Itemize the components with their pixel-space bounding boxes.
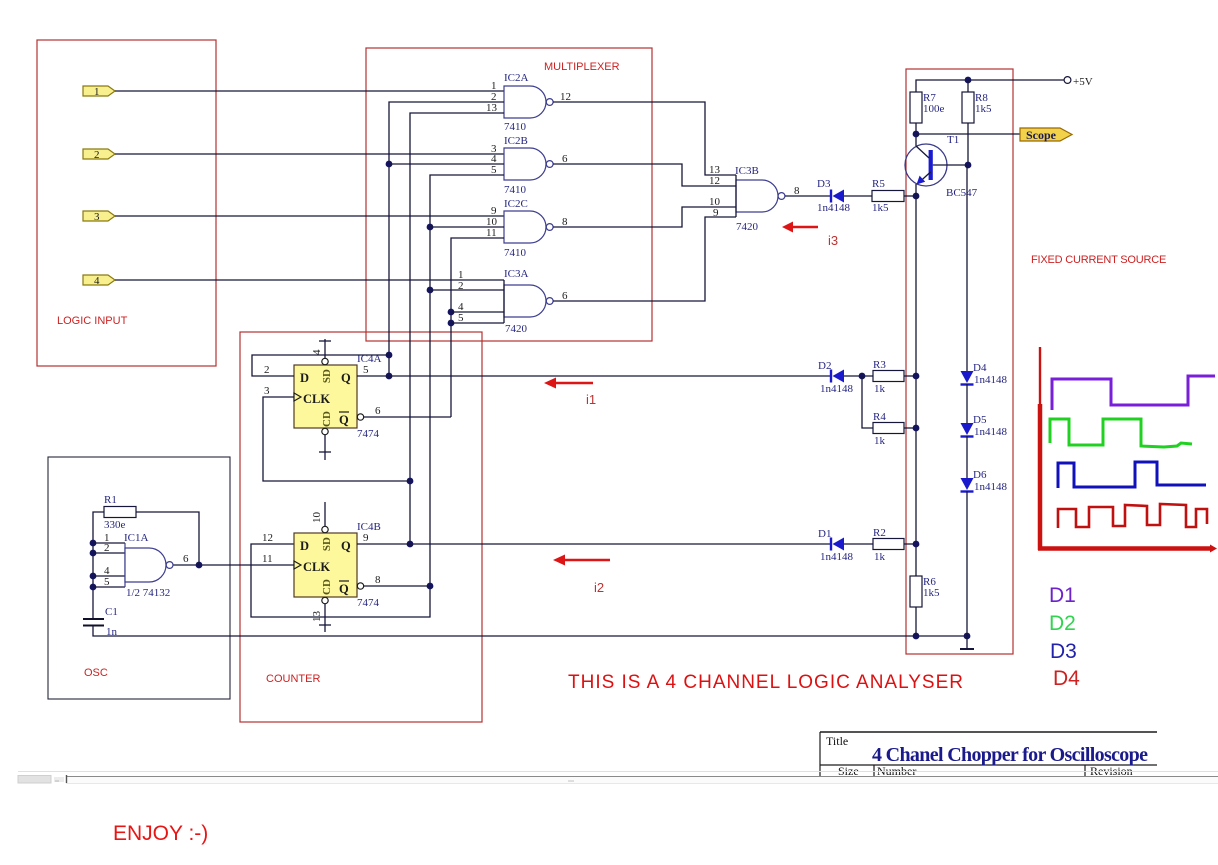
wire emitter line down (below R6) (915, 607, 917, 636)
resistor R4 1k (873, 411, 904, 447)
svg-text:R2: R2 (873, 527, 886, 539)
svg-text:12: 12 (709, 175, 720, 187)
wire R7 bottom lead / collector (915, 123, 917, 146)
wire R1 right lead to oscillator output node (136, 512, 199, 565)
svg-text:1n4148: 1n4148 (974, 426, 1008, 438)
label COUNTER (266, 673, 320, 685)
svg-text:1k5: 1k5 (975, 103, 992, 115)
svg-text:THIS IS A 4 CHANNEL LOGIC ANAL: THIS IS A 4 CHANNEL LOGIC ANALYSER (568, 672, 963, 693)
svg-text:6: 6 (375, 405, 381, 417)
resistor R3 1k (873, 359, 904, 395)
window border line (18, 771, 1218, 773)
junction dot at (451,312) (448, 309, 455, 316)
svg-text:9: 9 (713, 207, 719, 219)
wire IC2B pin 5 select line C (vertical x=430) (251, 175, 504, 617)
pin 1 stub of IC4A CD (tied) (319, 435, 331, 460)
wire R3 to emitter line (904, 375, 916, 377)
svg-text:5: 5 (104, 576, 110, 588)
svg-text:Title: Title (826, 734, 848, 748)
resistor R2 1k (873, 527, 904, 563)
ground stub (960, 636, 974, 649)
legend D4 (1053, 667, 1080, 690)
wire base to bias chain (933, 164, 967, 166)
wire IC3A output 6 to IC3B pin 9 (553, 217, 736, 301)
svg-text:1k: 1k (874, 435, 886, 447)
svg-text:2: 2 (94, 149, 100, 161)
junction dot at (93,576) (90, 573, 97, 580)
svg-text:4: 4 (311, 349, 323, 355)
pin 10 stub of IC4B SD (311, 502, 325, 526)
label i1 (586, 392, 596, 407)
legend D1 (1049, 584, 1076, 607)
svg-text:C1: C1 (105, 606, 118, 618)
wire IC3A pin 5 from junction (451, 322, 504, 324)
diode D6 1n4148 (961, 469, 1008, 493)
waveform trace D2 (green) (1050, 419, 1192, 447)
svg-text:3: 3 (94, 211, 100, 223)
svg-text:D1: D1 (818, 528, 831, 540)
frame FIXED CURRENT SOURCE box (906, 69, 1013, 654)
svg-text:Q: Q (339, 413, 349, 427)
svg-text:1k5: 1k5 (872, 202, 889, 214)
junction dot at (451,323) (448, 320, 455, 327)
svg-text:IC1A: IC1A (124, 532, 149, 544)
svg-text:R4: R4 (873, 411, 886, 423)
svg-text:MULTIPLEXER: MULTIPLEXER (544, 61, 620, 73)
svg-text:13: 13 (486, 102, 498, 114)
legend D3 (1050, 640, 1077, 663)
diode D5 1n4148 (961, 414, 1008, 438)
svg-text:7474: 7474 (357, 428, 380, 440)
svg-text:Q: Q (339, 582, 349, 596)
diode D3 1n4148 (817, 178, 851, 214)
svg-text:11: 11 (486, 227, 497, 239)
wire bias chain bottom segment (966, 491, 968, 636)
label LOGIC INPUT (57, 315, 128, 327)
wire IC2B pin 4 from junction (389, 163, 504, 165)
label i2 (594, 580, 604, 595)
wire emitter line down (upper part) (915, 184, 917, 576)
frame OSC box (48, 457, 230, 699)
wire R5 to emitter node (904, 195, 916, 197)
title block label Size (838, 764, 859, 778)
wire R2 to emitter line (904, 543, 916, 545)
resistor R7 100e (910, 92, 945, 123)
junction dot at (430,227) (427, 224, 434, 231)
svg-text:R3: R3 (873, 359, 886, 371)
wire IC2A pin 13 select line B (vertical x=410) (410, 113, 504, 544)
waveform trace D1 (purple) (1052, 376, 1215, 410)
waveform trace D3 (blue) (1058, 462, 1206, 488)
svg-text:R1: R1 (104, 494, 117, 506)
wire IC2C pin 10 from junction (430, 226, 504, 228)
svg-text:D5: D5 (973, 414, 987, 426)
caption ENJOY :-) (113, 822, 208, 845)
svg-text:1n4148: 1n4148 (817, 202, 851, 214)
svg-text:D1: D1 (1049, 584, 1076, 607)
svg-text:10: 10 (311, 512, 323, 524)
wire IC3A pin 4 from junction (451, 311, 504, 313)
wire IC1A pin 1 (93, 542, 125, 544)
wire IC2A pin 2 select line A (vertical x=389) (389, 102, 504, 376)
svg-text:12: 12 (262, 532, 273, 544)
wire IC2B output 6 to IC3B pin 12 (553, 164, 736, 186)
svg-text:D: D (300, 539, 309, 553)
wire D2 to R3/R4 node (844, 375, 873, 377)
wire C1 to ground bus (93, 626, 967, 637)
junction dot at (916,134) (913, 131, 920, 138)
wire bias chain segment D4-D5 (966, 384, 968, 423)
svg-text:SD: SD (321, 537, 333, 551)
label i3 (828, 233, 838, 248)
svg-text:8: 8 (562, 216, 568, 228)
title block frame (820, 732, 1157, 779)
svg-text:IC2B: IC2B (504, 135, 528, 147)
junction dot at (968,165) (965, 162, 972, 169)
nand gate IC1A (1/2 74132) (104, 532, 189, 599)
title block label Title (826, 734, 848, 748)
svg-text:i1: i1 (586, 392, 596, 407)
wire IC3B output 8 to D3 (785, 195, 831, 197)
svg-text:4 Chanel Chopper for Oscillosc: 4 Chanel Chopper for Oscilloscope (872, 744, 1148, 766)
svg-text:5: 5 (363, 364, 369, 376)
current arrow i1 (544, 378, 593, 389)
svg-text:8: 8 (375, 574, 381, 586)
svg-text:7410: 7410 (504, 121, 527, 133)
connector Scope (1020, 128, 1072, 142)
wire input 3 to IC2C pin 9 (115, 215, 504, 217)
svg-text:Scope: Scope (1026, 128, 1057, 142)
junction dot at (93,553) (90, 550, 97, 557)
svg-text:1k: 1k (874, 383, 886, 395)
svg-text:9: 9 (363, 532, 369, 544)
wire IC4A CLK pin 3 from IC4B Q (263, 385, 410, 481)
current arrow i3 (782, 222, 818, 233)
svg-text:IC2A: IC2A (504, 72, 529, 84)
svg-text:1n4148: 1n4148 (974, 481, 1008, 493)
svg-text:FIXED CURRENT SOURCE: FIXED CURRENT SOURCE (1031, 254, 1166, 266)
wire IC2C pin 11 select line D (vertical x=451) (451, 238, 504, 417)
nand gate IC3A (7420) (458, 268, 568, 335)
label MULTIPLEXER (544, 61, 620, 73)
svg-text:CD: CD (321, 579, 333, 595)
svg-text:1k5: 1k5 (923, 587, 940, 599)
pin 4 stub of IC4A SD (tied high) (311, 339, 331, 358)
junction dot at (967,636) (964, 633, 971, 640)
wire R1 left lead down to IC1A inputs and C1 (93, 512, 104, 619)
wire input 4 to IC3A pin 1 (115, 279, 504, 281)
title block label Number (877, 764, 916, 778)
svg-text:5: 5 (491, 164, 497, 176)
caption THIS IS A 4 CHANNEL LOGIC ANALYSER (568, 672, 963, 693)
nand gate IC3B (7420) (709, 164, 800, 233)
svg-text:D6: D6 (973, 469, 987, 481)
svg-text:D: D (300, 371, 309, 385)
wire collector node to Scope connector (916, 133, 1020, 135)
svg-text:12: 12 (560, 91, 571, 103)
junction dot at (93,587) (90, 584, 97, 591)
svg-text:11: 11 (262, 553, 273, 565)
junction dot at (862,376) (859, 373, 866, 380)
wire IC1A output to IC4B CLK pin 11 (173, 553, 294, 565)
wire D1 to R2 (844, 543, 873, 545)
flip-flop IC4A (7474) (294, 353, 382, 440)
current arrow i2 (553, 555, 610, 566)
nand gate IC2B (7410) (491, 135, 568, 196)
flip-flop IC4B (7474) (294, 521, 381, 609)
svg-text:OSC: OSC (84, 667, 108, 679)
svg-text:2: 2 (264, 364, 270, 376)
wire IC4A D pin 2 feedback loop (252, 355, 389, 376)
wire IC4A Q pin 5 to diode D2 (357, 364, 831, 376)
frame COUNTER box (240, 332, 482, 722)
junction dot at (968,80) (965, 77, 972, 84)
svg-text:7410: 7410 (504, 184, 527, 196)
label FIXED CURRENT SOURCE (1031, 254, 1166, 266)
wire IC3A pin 2 from junction (430, 289, 504, 291)
connector input 4 (83, 275, 115, 287)
svg-text:ENJOY :-): ENJOY :-) (113, 822, 208, 845)
svg-text:D4: D4 (1053, 667, 1080, 690)
wire node down to R4 (862, 376, 873, 428)
pin 12 label IC4B D (262, 532, 273, 544)
diode D4 1n4148 (961, 362, 1008, 386)
junction dot at (410,481) (407, 478, 414, 485)
svg-text:3: 3 (264, 385, 270, 397)
transistor T1 BC547 (905, 134, 978, 199)
svg-text:6: 6 (562, 153, 568, 165)
svg-text:IC2C: IC2C (504, 198, 528, 210)
svg-text:Q: Q (341, 539, 351, 553)
wire bias chain top segment (966, 165, 968, 371)
nand gate IC2C (7410) (486, 198, 568, 259)
svg-text:CLK: CLK (303, 560, 330, 574)
title block label Revision (1090, 764, 1133, 778)
wire input 2 to IC2B pin 3 (115, 153, 504, 155)
waveform axis (red) (1038, 347, 1217, 553)
wire R4 to emitter line (904, 427, 916, 429)
junction dot at (916,196) (913, 193, 920, 200)
svg-text:T1: T1 (947, 134, 959, 146)
connector input 1 (83, 86, 115, 98)
svg-text:D2: D2 (818, 360, 831, 372)
svg-text:R5: R5 (872, 178, 885, 190)
svg-text:i2: i2 (594, 580, 604, 595)
svg-text:330e: 330e (104, 519, 126, 531)
svg-text:...: ... (568, 775, 574, 784)
junction dot at (389,355) (386, 352, 393, 359)
wire IC2C output 8 to IC3B pin 10 (553, 207, 736, 227)
junction dot at (389,376) (386, 373, 393, 380)
resistor R8 1k5 (962, 80, 992, 123)
svg-text:IC4B: IC4B (357, 521, 381, 533)
svg-text:1/2 74132: 1/2 74132 (126, 587, 170, 599)
svg-text:D3: D3 (1050, 640, 1077, 663)
frame LOGIC INPUT box (37, 40, 216, 366)
pin 13 stub of IC4B CD (311, 604, 331, 632)
svg-text:D2: D2 (1049, 612, 1076, 635)
capacitor C1 1n (83, 606, 118, 638)
waveform trace D4 (dark red) (1058, 504, 1207, 528)
wire +5V rail (916, 80, 1064, 92)
svg-text:5: 5 (458, 312, 464, 324)
junction dot at (410,544) (407, 541, 414, 548)
title text 4 Chanel Chopper for Oscilloscope (872, 744, 1148, 766)
legend D2 (1049, 612, 1076, 635)
svg-text:IC3B: IC3B (735, 165, 759, 177)
svg-text:7474: 7474 (357, 597, 380, 609)
svg-text:1n4148: 1n4148 (974, 374, 1008, 386)
svg-text:IC3A: IC3A (504, 268, 529, 280)
wire IC2A output 12 to IC3B pin 13 (553, 102, 736, 175)
svg-text:13: 13 (311, 611, 323, 623)
power port +5V (1064, 76, 1093, 88)
junction dot at (916,376) (913, 373, 920, 380)
svg-text:SD: SD (321, 369, 333, 383)
svg-text:100e: 100e (923, 103, 945, 115)
connector input 3 (83, 211, 115, 223)
junction dot at (916,636) (913, 633, 920, 640)
junction dot at (430,586) (427, 583, 434, 590)
wire IC4B Qbar pin 8 to D loop (364, 574, 430, 586)
wire IC1A pin 5 (93, 586, 125, 588)
wire IC1A pin 4 (93, 575, 125, 577)
connector input 2 (83, 149, 115, 161)
wire D3 to R5 (844, 195, 872, 197)
wire IC1A pin 2 (93, 552, 125, 554)
diode D2 1n4148 (818, 360, 854, 395)
wire input 1 to IC2A pin 1 (115, 90, 504, 92)
svg-text:6: 6 (562, 290, 568, 302)
svg-text:7420: 7420 (736, 221, 759, 233)
horizontal scrollbar track (66, 776, 1218, 784)
resistor R6 1k5 (910, 576, 940, 607)
svg-text:CLK: CLK (303, 392, 330, 406)
junction dot at (199,565) (196, 562, 203, 569)
svg-text:COUNTER: COUNTER (266, 673, 320, 685)
svg-text:6: 6 (183, 553, 189, 565)
svg-text:CD: CD (321, 411, 333, 427)
junction dot at (389,164) (386, 161, 393, 168)
wire IC4A Qbar pin 6 to select line D (364, 405, 451, 417)
resistor R1 330e (104, 494, 136, 531)
wire R8 bottom lead to base node (967, 123, 969, 165)
horizontal scrollbar thumb (18, 775, 574, 784)
svg-text:1k: 1k (874, 551, 886, 563)
svg-text:D3: D3 (817, 178, 831, 190)
svg-text:D4: D4 (973, 362, 987, 374)
junction dot at (916,428) (913, 425, 920, 432)
svg-text:8: 8 (794, 185, 800, 197)
junction dot at (430,290) (427, 287, 434, 294)
label OSC (84, 667, 108, 679)
resistor R5 1k5 (872, 178, 904, 214)
svg-text:1n4148: 1n4148 (820, 551, 854, 563)
diode D1 1n4148 (818, 528, 854, 563)
svg-text:1: 1 (94, 86, 100, 98)
wire bias chain segment D5-D6 (966, 436, 968, 478)
junction dot at (93,543) (90, 540, 97, 547)
svg-text:LOGIC INPUT: LOGIC INPUT (57, 315, 128, 327)
svg-text:i3: i3 (828, 233, 838, 248)
svg-text:7410: 7410 (504, 247, 527, 259)
wire IC4B Q pin 9 to diode D1 (357, 532, 831, 544)
svg-text:1n4148: 1n4148 (820, 383, 854, 395)
svg-text:..: .. (55, 775, 59, 784)
junction dot at (916,544) (913, 541, 920, 548)
nand gate IC2A (7410) (486, 72, 571, 133)
svg-text:4: 4 (94, 275, 100, 287)
svg-text:7420: 7420 (505, 323, 528, 335)
svg-text:Q: Q (341, 371, 351, 385)
svg-text:2: 2 (104, 542, 110, 554)
svg-text:+5V: +5V (1073, 76, 1093, 88)
svg-text:BC547: BC547 (946, 187, 978, 199)
frame MULTIPLEXER box (366, 48, 652, 341)
